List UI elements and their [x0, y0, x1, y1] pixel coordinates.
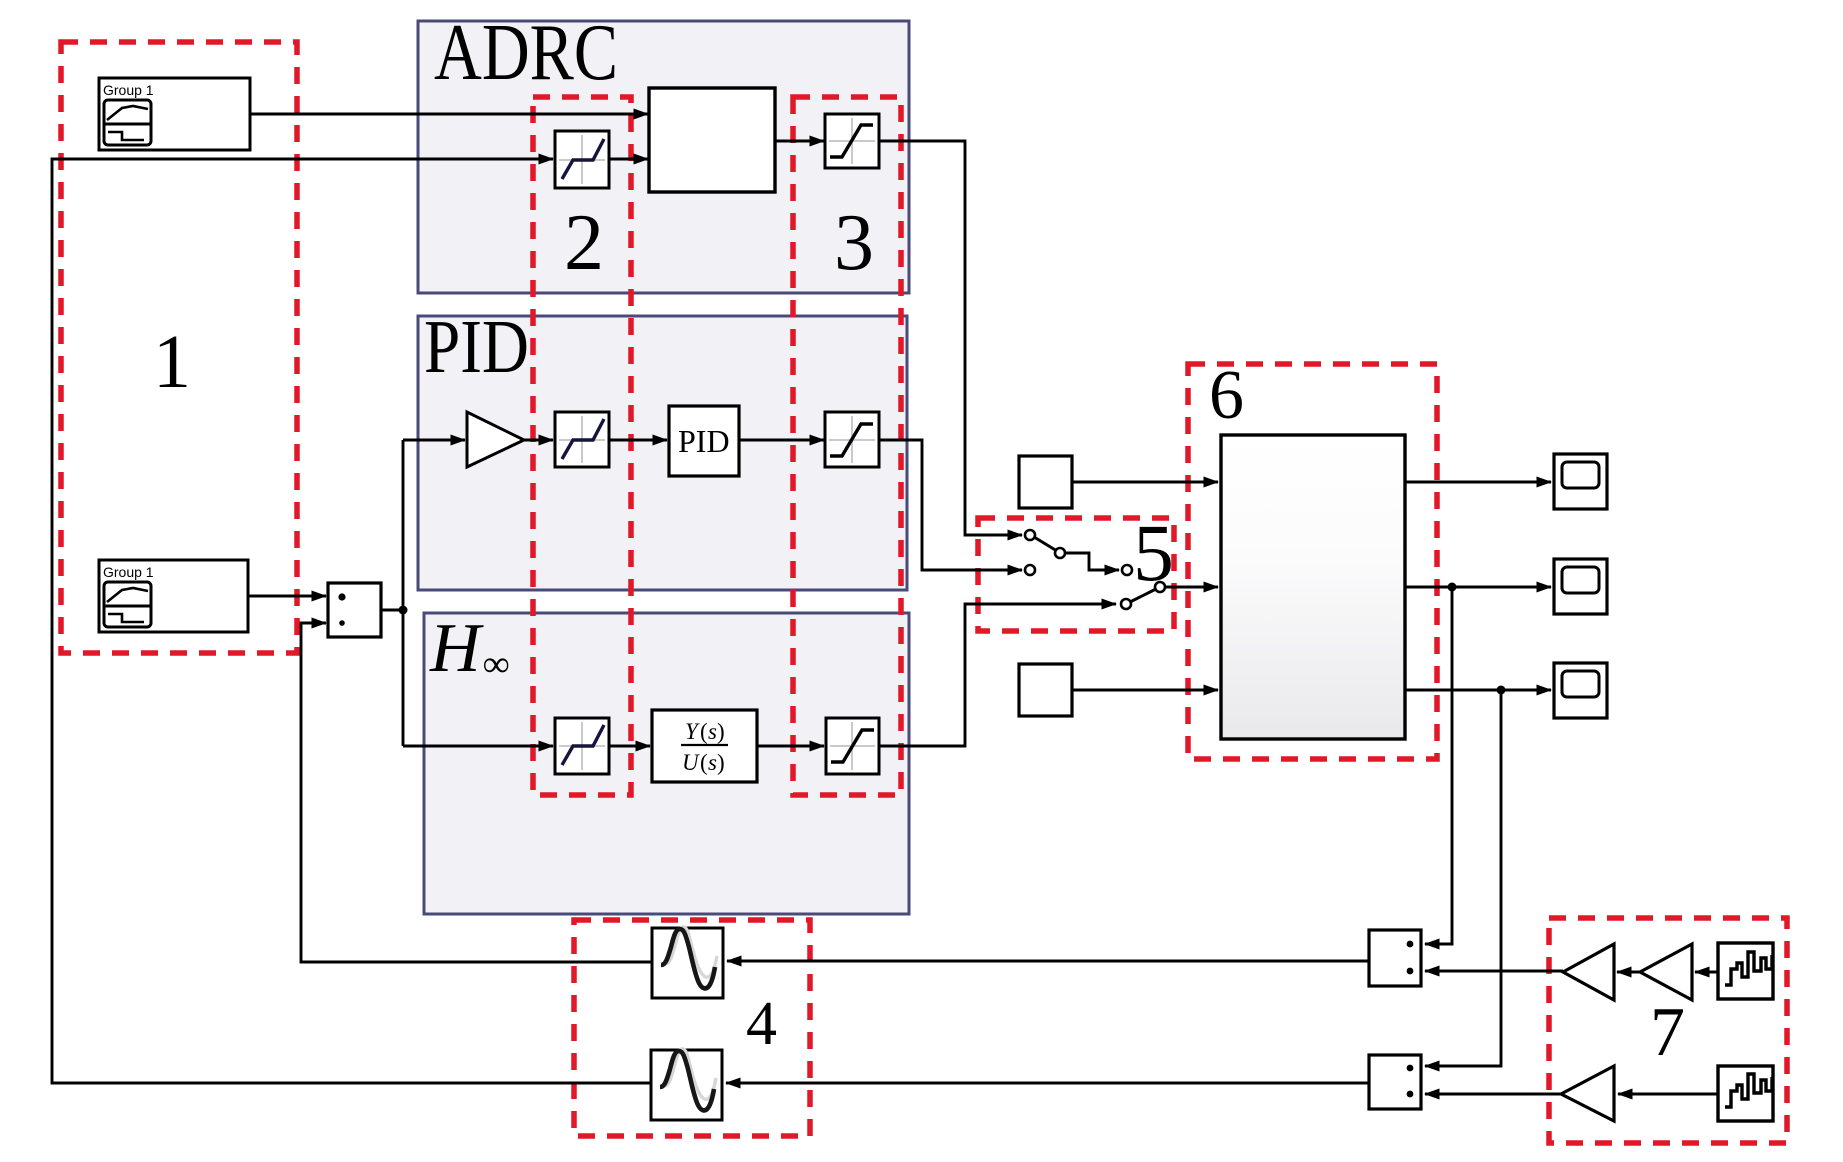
- svg-text:ADRC: ADRC: [434, 7, 618, 97]
- wire: feedback 1 (from filter F1) up to sum block input 2: [301, 623, 652, 962]
- dashed region 7: [1549, 918, 1787, 1143]
- wire: signal builder 1 to ADRC block input 1: [250, 113, 648, 116]
- gain T1 (box 7 top-left): [1563, 944, 1614, 1000]
- svg-text:∞: ∞: [483, 644, 509, 685]
- wire: branch to PID gain triangle: [403, 439, 465, 442]
- switch B: [1121, 565, 1165, 609]
- ADRC controller block: [649, 88, 775, 192]
- add block A1: [1369, 930, 1421, 986]
- wire: plant output 2 to scope 2: [1405, 586, 1551, 589]
- svg-text:U: U: [682, 750, 700, 775]
- scope 3: [1554, 663, 1607, 718]
- signal builder Group 1 (bottom): [99, 560, 248, 632]
- wire: gain T1 to add block A1 input 2: [1425, 970, 1563, 973]
- container box ADRC: [418, 7, 909, 293]
- node: plant output 2 tap: [1448, 583, 1457, 592]
- wire: gain T3 to add block A2 input 2: [1425, 1093, 1561, 1096]
- wire: tap from output 2 down to add block A1: [1425, 587, 1452, 944]
- saturation S2 (PID): [825, 412, 879, 467]
- filter F1 (sine block top): [652, 927, 723, 998]
- svg-text:H: H: [429, 610, 484, 687]
- constant C2: [1019, 664, 1072, 716]
- noise source N2: [1718, 1066, 1773, 1121]
- wire: gain T2 to gain T1: [1617, 971, 1640, 974]
- add block A2: [1369, 1055, 1421, 1109]
- svg-text:4: 4: [746, 990, 777, 1058]
- wire: tap from output 3 down to add block A2: [1425, 690, 1501, 1066]
- svg-text:s: s: [708, 750, 717, 775]
- wire: dead-zone DZ1 to ADRC block input 2: [609, 158, 648, 161]
- wire: plant output 1 to scope 1: [1405, 481, 1551, 484]
- wire: DZ2 to PID block: [609, 439, 667, 442]
- svg-text:2: 2: [564, 199, 604, 287]
- saturation S1 (ADRC): [825, 114, 879, 168]
- svg-text:s: s: [708, 719, 717, 744]
- svg-text:(: (: [700, 719, 708, 744]
- wire: saturation S1 to switch A input 1: [879, 141, 1022, 535]
- svg-text:PID: PID: [424, 305, 529, 389]
- wire: signal builder 2 to sum block: [248, 595, 326, 598]
- svg-text:6: 6: [1209, 357, 1244, 434]
- gain T3 (box 7 bottom): [1561, 1066, 1614, 1121]
- signal builder Group 1 (top): [99, 78, 250, 150]
- node: plant output 3 tap: [1497, 686, 1506, 695]
- svg-text:PID: PID: [678, 423, 730, 459]
- wire: constant C2 to plant input 3: [1072, 689, 1218, 692]
- wire: add A1 output to filter F1: [727, 960, 1369, 963]
- wire: sum output to branch node: [381, 609, 404, 612]
- dashed region 4: [574, 920, 810, 1136]
- gain T2 (box 7 top-right): [1640, 944, 1692, 1000]
- container box Hinf: [424, 610, 909, 914]
- dashed region 6: [1188, 357, 1437, 759]
- scope 2: [1554, 559, 1607, 614]
- dashed region 3: [793, 97, 901, 795]
- wire: transfer function to saturation S3: [757, 745, 824, 748]
- sum block: [328, 583, 381, 637]
- wire: noise N2 to gain T3: [1618, 1093, 1718, 1096]
- svg-text:): ): [717, 750, 725, 775]
- wire: branch vertical from PID row to Hinf row: [402, 440, 405, 746]
- scope 1: [1554, 454, 1607, 509]
- wire: noise N1 to gain T2: [1695, 971, 1718, 974]
- wire: plant output 3 to scope 3: [1405, 689, 1551, 692]
- wire: switch A output to switch B input 1: [1064, 553, 1119, 570]
- gain triangle (PID input): [467, 412, 524, 467]
- svg-text:3: 3: [834, 199, 874, 287]
- filter F2 (sine block bottom): [651, 1049, 722, 1120]
- svg-text:Y: Y: [685, 719, 700, 744]
- wire: saturation S2 to switch A input 2: [879, 440, 1022, 570]
- wire: constant C1 to plant input 1: [1072, 481, 1218, 484]
- dead-zone DZ3 (Hinf): [555, 718, 609, 774]
- noise source N1: [1718, 943, 1773, 999]
- wire: switch B output to plant input 2: [1164, 586, 1218, 589]
- svg-text:Group 1: Group 1: [103, 82, 154, 98]
- wire: branch to dead-zone DZ3: [403, 745, 553, 748]
- wire: DZ3 to transfer function: [609, 745, 650, 748]
- svg-text:Group 1: Group 1: [103, 564, 154, 580]
- transfer function Y(s)/U(s): [652, 710, 757, 782]
- svg-text:1: 1: [153, 320, 191, 404]
- wire: saturation S3 to switch B input 2: [879, 604, 1116, 746]
- wire: ADRC block to saturation S1: [775, 140, 824, 143]
- dead-zone DZ1 (ADRC): [555, 131, 609, 188]
- dashed region 2: [533, 97, 631, 795]
- constant C1: [1019, 456, 1072, 508]
- PID block: [669, 406, 739, 476]
- wire: PID block to saturation S2: [739, 439, 824, 442]
- node: sum output branch: [399, 606, 408, 615]
- wire: gain to dead-zone DZ2: [524, 439, 553, 442]
- dead-zone DZ2 (PID): [555, 412, 609, 467]
- svg-text:): ): [717, 719, 725, 744]
- plant block: [1221, 435, 1405, 739]
- container box PID: [418, 305, 907, 590]
- wire: add A2 output to filter F2: [726, 1082, 1369, 1085]
- switch A: [1025, 530, 1065, 575]
- svg-text:7: 7: [1650, 994, 1685, 1071]
- svg-text:5: 5: [1133, 507, 1174, 598]
- wire: feedback 2 (from filter F2) left column up to ADRC dead-zone input: [52, 159, 651, 1083]
- dashed region 1: [61, 42, 297, 653]
- dashed region 5: [978, 507, 1174, 631]
- saturation S3 (Hinf): [826, 718, 879, 774]
- svg-text:(: (: [700, 750, 708, 775]
